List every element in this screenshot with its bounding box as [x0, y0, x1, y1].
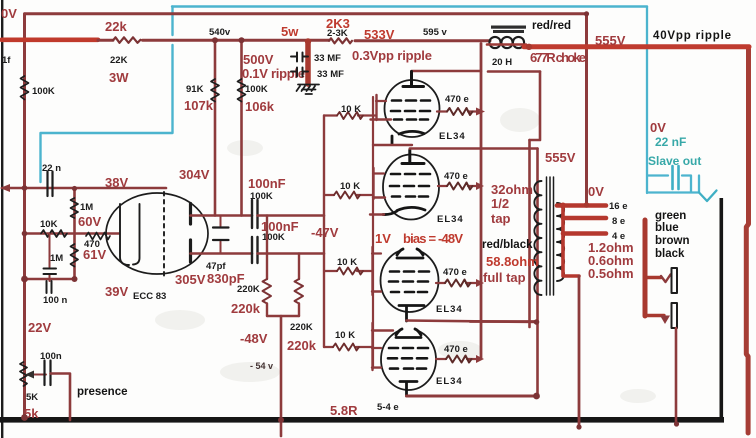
- capacitor C2 100nF coupling lower plates: [252, 237, 258, 263]
- svg-text:60V: 60V: [78, 214, 101, 229]
- wire V2 screen to resistor: [437, 110, 476, 112]
- svg-text:5-4 e: 5-4 e: [377, 402, 399, 413]
- tube V5 top grid bar: [396, 329, 421, 338]
- svg-text:100n: 100n: [40, 351, 62, 362]
- svg-text:106k: 106k: [245, 99, 275, 114]
- wire input 38V line: [2, 187, 166, 190]
- svg-text:ECC 83: ECC 83: [133, 291, 166, 302]
- svg-text:EL34: EL34: [436, 376, 463, 387]
- svg-text:red/black: red/black: [482, 239, 533, 251]
- junction dot 540v: [212, 37, 218, 43]
- resistor R 470e V2: [447, 108, 473, 115]
- wire V2 cathode bottom: [373, 144, 412, 146]
- svg-text:5.8R: 5.8R: [330, 403, 358, 418]
- wire B+ rail middle: [143, 39, 330, 42]
- svg-text:100 n: 100 n: [43, 295, 67, 306]
- junction dot left bottom: [21, 414, 28, 421]
- capacitor C1 100nF coupling upper plates: [252, 200, 258, 228]
- wire anode drop over primary: [536, 149, 539, 397]
- wire filter cap stub: [305, 42, 311, 84]
- tube V1 plates: [189, 204, 192, 263]
- svg-text:1V: 1V: [375, 231, 391, 246]
- wire V5 screen to resistor: [436, 358, 476, 360]
- wire grid riser x324: [323, 116, 325, 348]
- svg-text:EL34: EL34: [439, 131, 466, 142]
- tube V4 top grid bar: [397, 249, 423, 258]
- svg-text:100nF: 100nF: [248, 176, 286, 191]
- svg-text:100K: 100K: [250, 191, 273, 202]
- tube V4 EL34 envelope: [381, 249, 439, 312]
- svg-text:10 K: 10 K: [340, 181, 360, 192]
- svg-text:540v: 540v: [209, 27, 231, 38]
- wire B+ rail to 22k: [98, 39, 113, 42]
- wire V5 bottom rail: [407, 395, 537, 398]
- resistor R 100K vertical: [238, 79, 246, 102]
- svg-text:1f: 1f: [2, 55, 11, 66]
- tube V3 grid dashes: [390, 174, 430, 197]
- svg-text:220k: 220k: [287, 338, 317, 353]
- svg-text:10 K: 10 K: [337, 257, 357, 268]
- svg-text:677R choke: 677R choke: [530, 50, 586, 65]
- wire B+ 555V rail bright: [524, 44, 749, 49]
- input arrow: [0, 184, 10, 192]
- svg-text:full tap: full tap: [483, 270, 526, 285]
- arrow to screen bus V5: [476, 355, 484, 363]
- resistor R 470 cathode: [86, 233, 110, 240]
- svg-text:39V: 39V: [105, 284, 128, 299]
- svg-text:0.1V ripple: 0.1V ripple: [242, 66, 305, 81]
- svg-text:0.3Vpp ripple: 0.3Vpp ripple: [352, 48, 432, 63]
- wire jack ground drop: [675, 328, 678, 424]
- tube V4 grid dashes: [389, 272, 429, 293]
- junction dot choke output: [526, 44, 532, 50]
- tube V5 cathode: [400, 382, 417, 397]
- resistor R 10K on cathode line: [41, 230, 67, 237]
- wire B+ rail bright segment: [2, 37, 99, 42]
- resistor R 470e V5: [446, 356, 472, 363]
- svg-text:0V: 0V: [1, 6, 17, 21]
- wire 16 ohm tap: [557, 203, 606, 208]
- capacitor C-slave 22nF plates: [673, 166, 679, 189]
- wire bottom return y279: [25, 278, 75, 281]
- wire V3 anode line: [410, 147, 538, 150]
- svg-text:EL34: EL34: [436, 304, 463, 315]
- wire red right border: [746, 49, 748, 433]
- svg-text:tap: tap: [491, 211, 511, 226]
- capacitor C filter 33MF upper: [291, 53, 308, 62]
- svg-text:470 e: 470 e: [444, 171, 468, 182]
- wire left vertical bus: [23, 14, 26, 417]
- svg-text:107k: 107k: [184, 98, 214, 113]
- wire V3 screen to resistor: [438, 185, 476, 187]
- wire V5 screen stub: [372, 366, 381, 368]
- arrow lower: [660, 316, 670, 325]
- wire 0V top rail: [25, 12, 587, 15]
- wire T4 grid feed: [324, 346, 372, 348]
- svg-text:red/red: red/red: [532, 20, 571, 32]
- wire bias bus x373: [372, 97, 374, 368]
- svg-text:100K: 100K: [262, 232, 285, 243]
- wire 220K chain 2: [298, 254, 300, 280]
- resistor R 91K vertical: [211, 79, 219, 102]
- resistor R 1M lower vertical: [71, 244, 79, 267]
- tube V1 cathode bars: [120, 204, 140, 265]
- tube V4 cathode: [399, 306, 424, 322]
- connector jack lower: [672, 303, 678, 328]
- junction dot jack ground: [674, 421, 679, 426]
- wire V2 anode line to bus: [412, 70, 482, 73]
- wire cyan right drop to slave out: [647, 7, 699, 194]
- tube V3 top cap: [402, 150, 424, 164]
- svg-text:220K: 220K: [290, 322, 313, 333]
- junction dot 500V: [239, 37, 245, 43]
- junction dots y279: [21, 276, 28, 283]
- wire grid-leak vertical x75: [73, 189, 76, 280]
- svg-text:595 v: 595 v: [423, 27, 447, 38]
- junction dot -48V at border: [278, 417, 284, 423]
- wire 0V right drop to 16ohm tap: [585, 14, 588, 204]
- wire V4 screen stub: [372, 290, 381, 292]
- capacitor C 47pf link: [220, 216, 222, 254]
- resistor R 10K grid T1: [337, 112, 363, 119]
- resistor R 22k 3W: [113, 37, 141, 43]
- wire 8 ohm tap: [563, 216, 606, 221]
- junction dot cathode left: [22, 231, 28, 237]
- resistor R 10K grid T2: [334, 192, 360, 199]
- svg-text:305V: 305V: [175, 272, 206, 287]
- svg-text:32ohm: 32ohm: [491, 182, 533, 197]
- svg-text:22 nF: 22 nF: [655, 135, 686, 149]
- arrow check upper: [661, 275, 671, 283]
- svg-text:10 K: 10 K: [335, 330, 355, 341]
- tube V2 cathode: [392, 131, 424, 144]
- svg-text:black: black: [655, 248, 685, 260]
- junction dot bias bottom: [534, 319, 540, 325]
- transformer T1 primary coils: [534, 181, 541, 295]
- junction dot filter: [305, 38, 311, 44]
- ground symbol: [297, 85, 320, 95]
- wire cyan output hook: [699, 191, 717, 202]
- tube V5 grid dashes: [388, 348, 428, 369]
- capacitor C 100n cathode bypass: [49, 234, 51, 282]
- svg-text:555V: 555V: [595, 33, 626, 48]
- svg-text:40Vpp ripple: 40Vpp ripple: [653, 30, 731, 42]
- svg-text:1/2: 1/2: [491, 196, 509, 211]
- junction dot speaker top: [584, 202, 590, 208]
- wire coupling2 output: [258, 252, 325, 255]
- wire 555V center-tap line: [528, 140, 531, 327]
- tube V3 cathode: [383, 207, 425, 214]
- svg-text:0V: 0V: [588, 184, 604, 199]
- svg-text:91K: 91K: [186, 84, 204, 95]
- tube V3 EL34 envelope: [383, 155, 439, 220]
- wire V2 grid stub: [376, 100, 386, 102]
- resistor R 10K grid T3: [337, 268, 363, 275]
- wire 220K chain1 bottom: [266, 304, 268, 317]
- capacitor C 100n presence plates: [45, 361, 51, 386]
- wire choke terminals: [487, 43, 526, 46]
- junction dot 0V corner: [584, 11, 589, 16]
- svg-text:10K: 10K: [40, 219, 58, 230]
- svg-text:0.5ohm: 0.5ohm: [588, 266, 634, 281]
- wire speaker feed: [643, 220, 648, 316]
- capacitor C filter 33MF lower: [291, 68, 308, 77]
- resistor R 2K3 5w: [329, 38, 352, 43]
- wire -48V drop to bottom: [280, 316, 283, 436]
- svg-text:green: green: [655, 210, 686, 222]
- svg-text:22K: 22K: [110, 55, 128, 66]
- wire cathode line y233: [25, 232, 120, 235]
- wire V2 screen stub: [371, 118, 392, 120]
- svg-text:2-3K: 2-3K: [327, 28, 348, 39]
- wire 540v line to 91K: [214, 40, 217, 215]
- tube V2 grid dashes: [391, 101, 430, 120]
- grid T-bar V3: [372, 168, 374, 199]
- wire secondary vertical: [563, 206, 579, 277]
- transformer T1 secondary coils: [557, 203, 564, 281]
- wire V4 grid stub: [372, 252, 381, 254]
- tube V1 grid dashed: [163, 192, 165, 277]
- svg-text:22k: 22k: [105, 19, 127, 34]
- junction dot 16 tap left: [560, 203, 566, 209]
- resistor R 220K first vertical: [263, 279, 272, 304]
- wire screen bus elbow: [480, 276, 483, 283]
- svg-text:- 54 v: - 54 v: [250, 361, 273, 371]
- wire V4 bottom line to transformer: [407, 321, 538, 323]
- resistor R 470e V4: [445, 280, 471, 287]
- svg-text:Slave out: Slave out: [648, 154, 701, 168]
- grid T-bar V4: [371, 247, 373, 295]
- svg-text:33 MF: 33 MF: [314, 53, 341, 64]
- svg-text:555V: 555V: [545, 150, 576, 165]
- resistor R 10K grid T4: [333, 344, 359, 351]
- wire 4 ohm tap: [563, 231, 606, 236]
- svg-text:5w: 5w: [281, 24, 299, 39]
- svg-text:-48V: -48V: [240, 331, 268, 346]
- wire coupling1 output: [258, 214, 325, 217]
- svg-text:470 e: 470 e: [444, 344, 468, 355]
- wire cyan top bus: [172, 5, 647, 7]
- svg-text:33 MF: 33 MF: [317, 69, 344, 80]
- wire 555V drop upper: [530, 72, 541, 141]
- junction dot secondary bottom: [576, 424, 581, 429]
- svg-text:20 H: 20 H: [492, 57, 512, 68]
- arrow to screen bus: [476, 108, 485, 116]
- svg-text:16 e: 16 e: [609, 201, 628, 212]
- wire T2 grid feed: [324, 194, 373, 196]
- wire V5 grid top stub: [372, 329, 393, 331]
- wire V5 grid stub: [372, 347, 381, 349]
- svg-text:8 e: 8 e: [612, 216, 625, 227]
- grid T-bar V2: [375, 95, 377, 120]
- tube V1 ECC83 envelope: [106, 193, 208, 274]
- wire V3 cathode bottom: [370, 213, 384, 215]
- wire secondary drop to bottom: [578, 276, 581, 427]
- svg-text:470 e: 470 e: [443, 267, 467, 278]
- wire cyan left drop: [41, 7, 173, 183]
- wire bias join y316: [267, 315, 299, 317]
- svg-text:220k: 220k: [231, 301, 261, 316]
- grid T-bar V5: [371, 323, 373, 370]
- svg-text:5K: 5K: [26, 392, 38, 403]
- svg-text:22 n: 22 n: [42, 163, 61, 174]
- svg-text:533V: 533V: [364, 27, 395, 42]
- wire presence drop: [51, 374, 71, 421]
- resistor R 1M upper vertical: [71, 198, 79, 218]
- tube V5 EL34 envelope: [381, 329, 436, 390]
- transformer T1 core: [547, 177, 554, 295]
- svg-text:22V: 22V: [28, 320, 51, 335]
- svg-text:100K: 100K: [32, 86, 55, 97]
- svg-text:brown: brown: [655, 235, 690, 247]
- wire T1 grid feed: [324, 114, 376, 116]
- wire B+ rail to choke: [355, 39, 490, 42]
- wire 220K chain 1: [266, 216, 268, 280]
- svg-text:1M: 1M: [50, 253, 63, 264]
- svg-text:presence: presence: [77, 386, 128, 398]
- svg-text:1M: 1M: [80, 202, 93, 213]
- pot wiper arrow: [32, 374, 46, 376]
- choke L1 coils 20H: [489, 37, 500, 48]
- tube V2 EL34 envelope: [385, 80, 440, 137]
- junction dot bottom rail: [533, 393, 540, 400]
- capacitor C 22n plates: [48, 172, 53, 197]
- wire plate1 to coupling cap: [191, 214, 253, 217]
- wire 220K chain2 bottom: [298, 304, 300, 317]
- arrow to screen bus V3: [476, 182, 484, 190]
- wire plate2 to coupling cap: [191, 252, 253, 255]
- svg-text:0V: 0V: [650, 120, 666, 135]
- wire V4 screen to resistor: [436, 282, 476, 284]
- svg-text:220K: 220K: [237, 284, 260, 295]
- wire V3 grid stub: [373, 172, 384, 174]
- resistor R 100K left vertical: [21, 76, 29, 100]
- wire full tap line: [470, 320, 538, 323]
- choke L1 TRIAD box: [491, 26, 526, 34]
- wire T3 grid feed: [324, 270, 372, 272]
- wire screen bus A: [480, 44, 483, 359]
- svg-text:61V: 61V: [83, 247, 106, 262]
- wire choke lower line: [488, 70, 540, 73]
- resistor R 470e V3: [447, 183, 473, 190]
- capacitor C 100n plates: [44, 269, 57, 294]
- svg-text:3W: 3W: [109, 70, 129, 85]
- junction dot 38V left: [22, 185, 28, 191]
- wire speaker branch lower: [645, 314, 664, 317]
- svg-text:470 e: 470 e: [445, 94, 469, 105]
- junction dot grid x75: [72, 186, 77, 191]
- connector jack upper: [672, 268, 678, 293]
- svg-text:304V: 304V: [179, 167, 210, 182]
- resistor R 220K second vertical: [295, 279, 304, 304]
- wire V3 screen stub: [373, 196, 385, 198]
- potentiometer 5K: [20, 362, 27, 386]
- capacitor C 47pf plates: [213, 228, 229, 241]
- svg-text:10 K: 10 K: [341, 104, 361, 115]
- tube V2 top cap: [403, 72, 424, 87]
- svg-text:38V: 38V: [105, 175, 128, 190]
- wire speaker branch upper: [645, 276, 661, 279]
- svg-text:EL34: EL34: [437, 214, 464, 225]
- wire 500V line: [240, 40, 243, 215]
- svg-text:blue: blue: [655, 222, 679, 234]
- svg-text:bias = -48V: bias = -48V: [403, 231, 463, 246]
- svg-text:500V: 500V: [243, 52, 274, 67]
- svg-text:58.8ohm: 58.8ohm: [486, 254, 539, 269]
- svg-text:100K: 100K: [245, 84, 268, 95]
- arrow to screen bus V4: [476, 279, 484, 287]
